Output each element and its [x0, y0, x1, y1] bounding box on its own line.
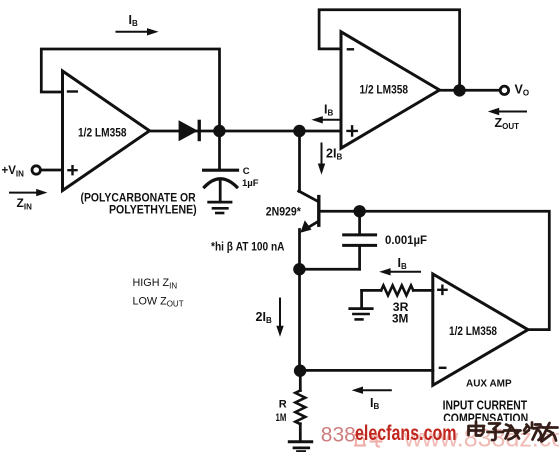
svg-text:2N929*: 2N929* [266, 206, 301, 218]
svg-text:2IB: 2IB [256, 310, 272, 325]
svg-text:IB: IB [398, 256, 407, 271]
svg-text:POLYETHYLENE): POLYETHYLENE) [109, 204, 197, 216]
svg-text:838: 838 [321, 423, 356, 446]
svg-text:1/2 LM358: 1/2 LM358 [449, 326, 498, 338]
svg-text:0.001µF: 0.001µF [385, 235, 427, 247]
svg-text:(POLYCARBONATE OR: (POLYCARBONATE OR [81, 193, 197, 205]
svg-text:1µF: 1µF [242, 178, 259, 189]
svg-text:1/2 LM358: 1/2 LM358 [360, 84, 409, 96]
svg-text:*hi β AT 100 nA: *hi β AT 100 nA [211, 242, 285, 254]
svg-text:IB: IB [370, 396, 379, 411]
svg-text:AUX AMP: AUX AMP [466, 377, 512, 389]
svg-text:IB: IB [129, 13, 138, 28]
svg-text:ZIN: ZIN [17, 196, 33, 211]
svg-text:VO: VO [515, 83, 530, 98]
svg-text:elecfans.com: elecfans.com [355, 421, 457, 445]
svg-text:+VIN: +VIN [2, 165, 25, 178]
svg-text:1/2 LM358: 1/2 LM358 [78, 127, 127, 139]
svg-text:3R: 3R [393, 302, 409, 314]
svg-text:1M: 1M [276, 412, 287, 424]
svg-text:IB: IB [324, 103, 333, 118]
svg-text:R: R [279, 399, 287, 411]
svg-text:C: C [243, 166, 250, 177]
svg-text:HIGH ZIN: HIGH ZIN [133, 277, 178, 290]
svg-text:3M: 3M [392, 314, 408, 326]
svg-text:ZOUT: ZOUT [495, 116, 520, 131]
svg-text:LOW ZOUT: LOW ZOUT [133, 295, 184, 308]
